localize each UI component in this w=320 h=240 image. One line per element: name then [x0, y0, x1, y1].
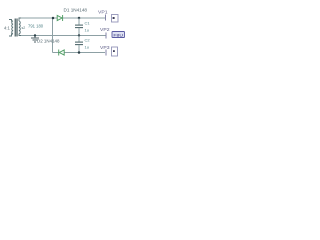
transformer T1 [9, 18, 21, 37]
svg-text:s2: s2 [22, 26, 26, 30]
svg-text:1u: 1u [85, 45, 89, 50]
node junction top-right [78, 17, 81, 20]
svg-text:D1 1N4148: D1 1N4148 [64, 7, 88, 12]
svg-text:4:1: 4:1 [4, 26, 10, 31]
terminal box TP3 [112, 47, 118, 56]
svg-text:791 180: 791 180 [28, 24, 44, 29]
terminal box TP1 [112, 15, 119, 23]
capacitor C1 [75, 18, 83, 36]
wire mid ground rail [21, 35, 106, 37]
node junction ground [34, 34, 36, 36]
node junction bottom cap [78, 51, 81, 54]
diode D2 1N4148 [59, 50, 64, 56]
svg-text:1u: 1u [85, 28, 89, 33]
svg-text:C2: C2 [85, 38, 91, 43]
wire top rail [21, 17, 105, 19]
value box VP2 blue [112, 32, 125, 38]
svg-text:D2 1N4148: D2 1N4148 [37, 38, 60, 43]
svg-text:C1: C1 [85, 21, 91, 26]
wire bottom rail D2 branch [53, 52, 106, 54]
diode D1 1N4148 [57, 15, 62, 21]
wire secondary-to-D2 vertical [52, 18, 54, 53]
ground [31, 36, 39, 43]
node junction mid-rail cap [78, 34, 80, 36]
svg-text:VP3: VP3 [100, 45, 110, 51]
svg-text:F8U: F8U [113, 33, 123, 38]
node junction top-left [52, 17, 55, 20]
capacitor C2 [75, 36, 83, 53]
svg-text:VP2: VP2 [100, 27, 110, 33]
svg-text:VP1: VP1 [98, 10, 108, 16]
